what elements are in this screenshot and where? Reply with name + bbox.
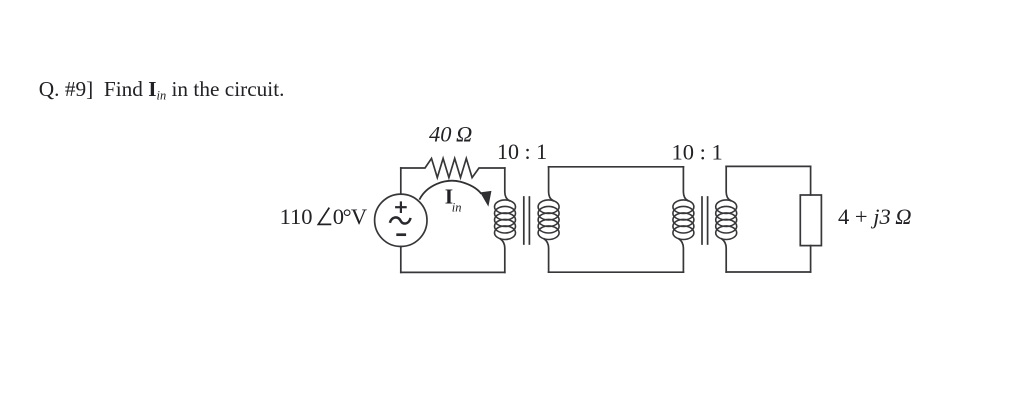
svg-text:V: V xyxy=(351,204,367,229)
svg-text:10 : 1: 10 : 1 xyxy=(672,139,723,164)
svg-text:110: 110 xyxy=(280,204,313,229)
svg-text:10 : 1: 10 : 1 xyxy=(497,139,547,164)
svg-text:4 + j3 Ω: 4 + j3 Ω xyxy=(838,204,911,229)
svg-text:in: in xyxy=(452,200,462,214)
svg-text:40 Ω: 40 Ω xyxy=(429,121,472,146)
